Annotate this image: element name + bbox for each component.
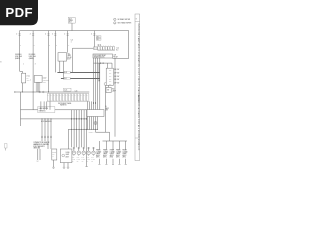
svg-text:TAIL: TAIL — [82, 156, 85, 159]
svg-text:2: 2 — [114, 23, 115, 25]
svg-text:J/B: J/B — [97, 39, 99, 41]
svg-text:OFF: OFF — [109, 84, 112, 86]
svg-text:IND: IND — [112, 88, 114, 90]
svg-text:8: 8 — [136, 19, 137, 21]
svg-text:OFF: OFF — [109, 81, 112, 83]
svg-text:CONNECTOR SIDE OF: CONNECTOR SIDE OF — [33, 142, 49, 144]
svg-text:WIRE 8-15: WIRE 8-15 — [137, 141, 139, 152]
svg-text:BODY HARNESS: BODY HARNESS — [41, 120, 52, 123]
svg-text:DOME: DOME — [66, 152, 70, 154]
svg-text:B-R: B-R — [64, 78, 66, 80]
svg-text:REAR: REAR — [110, 149, 115, 152]
svg-text:(R): (R) — [72, 161, 74, 163]
svg-text:2: 2 — [64, 34, 65, 36]
svg-text:PDF: PDF — [5, 5, 33, 20]
svg-text:(RH): (RH) — [110, 157, 114, 159]
svg-text:B: B — [20, 45, 21, 47]
svg-text:2: 2 — [16, 34, 17, 36]
svg-text:2: 2 — [52, 34, 53, 36]
svg-text:COMBI: COMBI — [123, 151, 129, 153]
svg-text:2: 2 — [91, 34, 92, 36]
svg-text:L&R: L&R — [113, 55, 116, 57]
svg-text:B: B — [49, 45, 50, 47]
svg-text:OFF: OFF — [109, 73, 112, 75]
svg-text:1: 1 — [23, 64, 24, 66]
svg-text:(RH): (RH) — [103, 157, 107, 159]
svg-text:2: 2 — [45, 34, 46, 36]
svg-text:2: 2 — [30, 34, 31, 36]
svg-text:3: 3 — [35, 64, 36, 66]
svg-text:(R): (R) — [91, 161, 93, 163]
svg-text:COMBI: COMBI — [110, 151, 116, 153]
svg-text:LOCK: LOCK — [43, 78, 47, 80]
svg-text:(RH): (RH) — [116, 157, 120, 159]
svg-text:UNIT: UNIT — [105, 110, 108, 112]
svg-text:REAR: REAR — [96, 149, 101, 152]
svg-text:TAIL: TAIL — [77, 156, 80, 159]
svg-text:INSTRUMENT PANEL: INSTRUMENT PANEL — [58, 102, 72, 105]
svg-text:J/B: J/B — [97, 36, 99, 38]
svg-text:REAR: REAR — [103, 149, 108, 152]
svg-text:INTERIOR LAMP AND ILLUMINATION: INTERIOR LAMP AND ILLUMINATION LIGHT CIR… — [137, 24, 140, 106]
svg-text:(RH): (RH) — [123, 157, 127, 159]
svg-text:: W/ REAR WIPER: : W/ REAR WIPER — [117, 18, 131, 21]
svg-text:(RH): (RH) — [96, 157, 100, 159]
svg-text:OFF: OFF — [109, 70, 112, 72]
svg-text:C-3: C-3 — [71, 40, 74, 42]
svg-text:(R): (R) — [77, 161, 79, 163]
svg-text:STOP: STOP — [26, 75, 30, 77]
svg-text:REAR: REAR — [116, 149, 121, 152]
svg-text:REAR: REAR — [123, 149, 128, 152]
svg-text:FOR THE BODY: FOR THE BODY — [33, 146, 44, 148]
svg-text:DOOR: DOOR — [52, 151, 56, 153]
svg-text:1: 1 — [71, 42, 72, 44]
svg-text:(R): (R) — [82, 161, 84, 163]
svg-text:C-54: C-54 — [116, 48, 119, 50]
svg-text:OFF: OFF — [109, 78, 112, 80]
svg-text:WIRING DIAGRAMS FOR ALL MODELS: WIRING DIAGRAMS FOR ALL MODELS — [137, 95, 140, 141]
svg-text:COMBI: COMBI — [116, 151, 122, 153]
svg-text:UNIT: UNIT — [43, 81, 46, 83]
svg-text:OFF: OFF — [109, 76, 112, 78]
svg-text:FUSIBLE: FUSIBLE — [29, 54, 36, 56]
svg-text:TAIL: TAIL — [67, 53, 70, 56]
svg-text:1: 1 — [30, 80, 31, 82]
svg-text:DOOR: DOOR — [43, 76, 47, 78]
svg-text:: W/O REAR WIPER: : W/O REAR WIPER — [117, 22, 132, 25]
svg-text:1 2: 1 2 — [37, 161, 39, 163]
svg-text:C-05: C-05 — [64, 90, 67, 92]
svg-text:COMBI: COMBI — [103, 151, 109, 153]
svg-text:CONTROL: CONTROL — [43, 80, 49, 82]
svg-text:TAIL: TAIL — [91, 156, 94, 159]
svg-text:B: B — [0, 62, 1, 64]
svg-text:COMBI: COMBI — [96, 151, 102, 153]
svg-text:B: B — [56, 45, 57, 47]
svg-text:2: 2 — [30, 78, 31, 80]
svg-text:C-06: C-06 — [75, 90, 78, 92]
svg-text:ILL: ILL — [105, 106, 107, 108]
svg-text:FUSIBLE: FUSIBLE — [15, 54, 22, 56]
svg-text:B: B — [34, 45, 35, 47]
svg-text:1: 1 — [114, 19, 115, 21]
svg-text:RHEO 8-4: RHEO 8-4 — [89, 132, 95, 134]
svg-text:B-3: B-3 — [116, 49, 118, 51]
svg-text:BOX: BOX — [69, 22, 72, 24]
svg-text:B: B — [68, 45, 69, 47]
